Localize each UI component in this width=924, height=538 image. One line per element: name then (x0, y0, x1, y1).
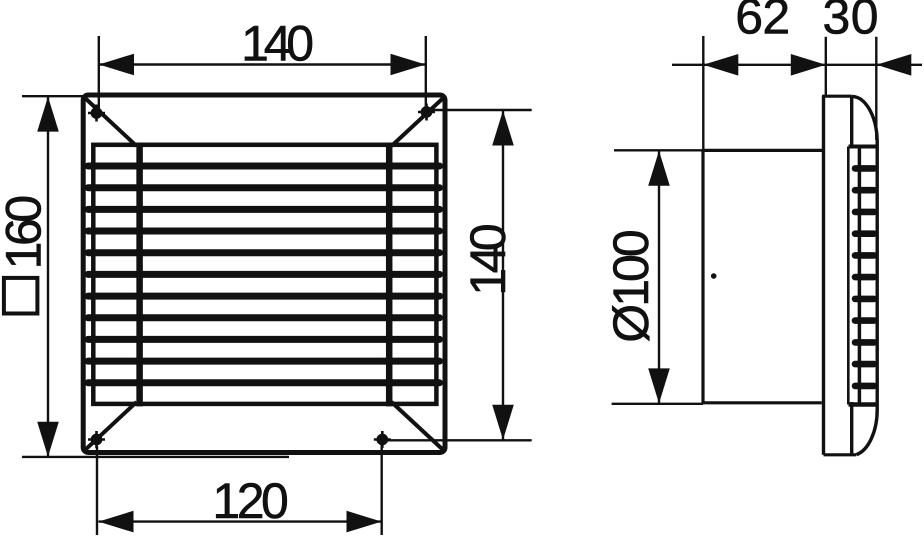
side view duct bottom edge (703, 401, 822, 404)
side view duct top edge (703, 149, 824, 152)
corner diagonal top-left (85, 98, 137, 146)
side view bezel bottom arc (856, 409, 877, 455)
screw top-left (88, 105, 105, 122)
dimension 62 arrows (703, 54, 738, 76)
svg-text:160: 160 (0, 195, 51, 270)
side view back plate (822, 96, 825, 455)
svg-text:30: 30 (823, 0, 879, 44)
svg-text:120: 120 (212, 473, 289, 529)
svg-text:Ø100: Ø100 (603, 229, 659, 343)
dimension 140 top: extension lines (99, 36, 426, 108)
side view duct left edge (701, 150, 704, 402)
front view outer frame (83, 95, 445, 453)
screw top-right (418, 104, 435, 121)
side view bezel top arc (852, 96, 877, 140)
dimension 140 right: arrows (492, 111, 514, 146)
louver support vertical right (386, 143, 393, 407)
svg-text:140: 140 (460, 223, 516, 296)
svg-text:62: 62 (735, 0, 790, 44)
side view bezel top edge (822, 95, 852, 98)
side view louver pack inner line (858, 147, 862, 405)
dimension 62/30 top: extension lines (672, 36, 922, 150)
dimension 120 bottom: extension lines (97, 445, 382, 535)
dimension 140 top: arrows (99, 54, 134, 76)
side view bezel front face lower (850, 402, 853, 455)
square-section symbol for 160 (4, 278, 38, 314)
side view bezel bottom edge (824, 453, 857, 456)
dimension 160 left: extension lines (22, 96, 289, 457)
louver support vertical left (136, 143, 143, 407)
side view louver pack rear line (847, 147, 850, 405)
louver opening frame (93, 145, 436, 404)
corner diagonal bottom-left (85, 402, 137, 450)
dimension 30 arrow (876, 54, 911, 76)
louver slats (front view) (88, 166, 440, 383)
screw bottom-left (88, 431, 105, 448)
dimension D100: extension lines (612, 150, 703, 403)
dimension 160 left: arrows (37, 97, 59, 132)
dimension 140 right: extension lines (386, 110, 532, 440)
side view bezel front face upper (850, 96, 853, 148)
dimension 120 bottom: arrows (99, 511, 134, 533)
svg-text:140: 140 (241, 15, 314, 71)
dimension D100 arrows (648, 151, 670, 186)
side view duct rivet dot (711, 273, 717, 279)
side view louver stubs (855, 168, 874, 386)
side view louver pack bottom edge (849, 402, 877, 407)
side view louver pack top edge (849, 145, 878, 149)
side view bezel right outline (876, 141, 879, 409)
corner diagonal top-right (392, 98, 444, 146)
corner diagonal bottom-right (392, 402, 444, 450)
screw bottom-right (374, 431, 391, 448)
